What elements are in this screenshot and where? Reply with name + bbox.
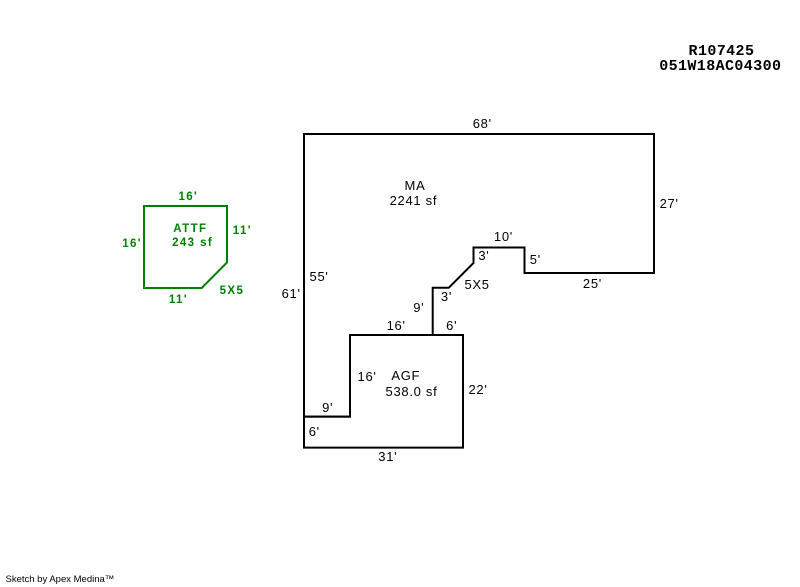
label 16' ATTF top (green) (178, 191, 198, 203)
label 3' upper notch (478, 249, 489, 262)
label 5' step (530, 253, 541, 266)
AGF attached garage outline (304, 335, 463, 448)
label MA area 2241 sf (390, 194, 438, 207)
label 10' notch top (494, 230, 513, 243)
label 55' left of MA (310, 270, 329, 283)
label 16' ATTF left (green) (122, 238, 142, 250)
label 11' ATTF bottom (green) (169, 294, 188, 306)
MA main area outline (304, 134, 654, 417)
label 9' MA bottom left (322, 401, 333, 414)
parcel id R107425 (689, 44, 755, 59)
label 61' far left (282, 287, 301, 300)
parcel id 051W18AC04300 (659, 59, 781, 74)
label 68' top of MA (473, 117, 492, 130)
label 31' AGF bottom (378, 450, 397, 463)
label 16' AGF top (387, 319, 406, 332)
label 25' bottom right of MA (583, 277, 602, 290)
label 27' right of MA (660, 197, 679, 210)
label 3' lower notch (441, 290, 452, 303)
label 16' AGF inside left (358, 370, 377, 383)
label 22' AGF right (469, 383, 488, 396)
label AGF area 538.0 sf (386, 385, 438, 398)
label ATTF area name (green) (173, 223, 207, 235)
label 6' AGF left (309, 425, 320, 438)
label 9' notch vertical (413, 301, 424, 314)
label MA area name (405, 179, 426, 192)
label 5X5 ATTF diagonal (green) (220, 285, 245, 297)
footer Sketch by Apex Medina (6, 575, 115, 585)
label 5X5 diagonal MA (465, 278, 490, 291)
label 6' AGF top right (446, 319, 457, 332)
label ATTF area 243 sf (green) (172, 237, 213, 249)
label 11' ATTF right (green) (233, 225, 252, 237)
label AGF area name (391, 369, 420, 382)
ATTF attic outline (green) (144, 206, 227, 288)
